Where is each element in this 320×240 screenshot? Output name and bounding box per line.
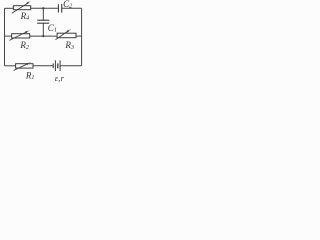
wire: top segment C2 to right corner (62, 7, 82, 9)
capacitor C2 (58, 4, 61, 13)
capacitor C1 (37, 20, 49, 23)
node: junction dot top (C1 tap) (42, 7, 44, 9)
wire: bottom segment R1 to battery (33, 65, 53, 67)
wire: bottom segment battery to right corner (60, 65, 81, 67)
svg-text:ε,r: ε,r (55, 74, 65, 83)
wire: right vertical (81, 8, 83, 66)
wire: top left segment to R4 (5, 7, 14, 9)
svg-text:R1: R1 (25, 70, 35, 81)
svg-text:C1: C1 (48, 23, 57, 34)
wire: middle left segment to R2 (5, 35, 12, 37)
wire: bottom left segment to R1 (5, 65, 16, 67)
wire: left vertical (4, 8, 6, 66)
wire: top segment R4 to C2 (31, 7, 59, 9)
svg-text:R2: R2 (19, 40, 29, 51)
resistor R1 (rheostat) (14, 62, 34, 70)
resistor R3 (rheostat) (56, 29, 77, 39)
resistor R2 (rheostat) (9, 30, 29, 40)
node: junction dot middle (C1 tap) (42, 35, 44, 37)
wire: C1 branch upper (42, 8, 44, 20)
svg-text:R4: R4 (20, 11, 30, 22)
svg-text:C2: C2 (63, 0, 72, 10)
wire: middle segment R3 to right wire (76, 35, 82, 37)
svg-text:R3: R3 (64, 40, 74, 51)
battery epsilon,r (two cells) (53, 60, 60, 71)
wire: C1 branch lower (42, 23, 44, 36)
wire: middle segment R2 to R3 (30, 35, 57, 37)
resistor R4 (rheostat) (12, 1, 31, 13)
